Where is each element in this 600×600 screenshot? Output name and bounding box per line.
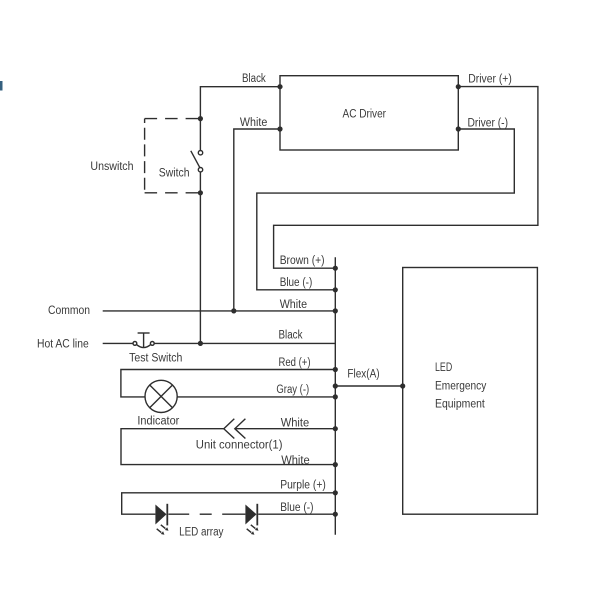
unswitch dashed box top edge [145,118,198,120]
bus vertical [334,257,336,535]
svg-text:LED: LED [435,362,452,374]
svg-text:Gray (-): Gray (-) [276,384,309,396]
LED Emergency Equipment box [403,268,538,515]
unswitch dashed box bottom edge [145,192,198,194]
wire purple plus [122,493,336,514]
svg-text:White: White [240,117,267,129]
junction dot blue bottom at bus [333,512,338,517]
junction dot purple at bus [333,490,338,495]
switch S1 lever [191,151,200,168]
junction dot black at AC driver [277,84,282,89]
svg-text:Emergency: Emergency [435,381,487,393]
junction dot brown at bus [333,266,338,271]
wire switch to hot line [199,172,201,343]
junction dot red at bus [333,367,338,372]
junction dot common at bus [333,308,338,313]
wire blue to bus [258,513,335,515]
svg-text:Red (+): Red (+) [279,357,311,369]
junction dot common white [231,308,236,313]
LED D1 [155,504,168,535]
wire hot ac line [103,342,133,344]
blue edge mark [0,81,3,91]
junction dot white at AC driver [277,126,282,131]
junction dot switch bottom [198,190,203,195]
svg-text:Driver (-): Driver (-) [468,118,509,130]
wire gray minus [177,396,335,398]
unit connector chevron 2 [235,419,246,439]
svg-text:Blue (-): Blue (-) [280,502,313,514]
wire red plus [121,370,335,397]
wire black top [200,87,280,151]
svg-text:Black: Black [242,73,266,85]
svg-text:Common: Common [48,305,90,317]
junction dot gray at bus [333,394,338,399]
unit connector chevron 1 [224,419,235,439]
svg-text:White: White [281,455,310,467]
wire white connector top [121,429,335,465]
svg-text:Blue (-): Blue (-) [280,277,313,289]
junction dot blue at bus [333,287,338,292]
svg-text:White: White [280,299,307,311]
wire driver minus [257,129,515,290]
svg-text:LED array: LED array [179,526,224,538]
junction dot flex at equipment [400,383,405,388]
svg-text:Test Switch: Test Switch [129,353,182,365]
svg-text:Unit connector(1): Unit connector(1) [196,439,283,451]
junction dot hot at switch [198,341,203,346]
svg-text:Purple (+): Purple (+) [280,480,326,492]
wire driver plus [274,87,538,269]
svg-text:White: White [281,417,310,429]
svg-text:Brown (+): Brown (+) [280,255,325,267]
svg-text:Indicator: Indicator [137,416,179,428]
unswitch dashed box left edge [144,119,146,193]
wire flex A [335,385,402,387]
LED D2 [245,504,258,535]
junction dot flex at bus [333,383,338,388]
svg-text:Black: Black [279,330,303,342]
svg-text:Flex(A): Flex(A) [347,369,379,381]
svg-text:Unswitch: Unswitch [90,161,133,173]
svg-text:Hot AC line: Hot AC line [37,338,89,350]
svg-text:Switch: Switch [159,167,190,179]
junction dot driver plus [456,84,461,89]
indicator lamp DS1 [145,380,177,412]
switch S1 contacts [198,151,202,155]
junction dot white top at bus [333,426,338,431]
junction dot white bottom at bus [333,462,338,467]
svg-text:AC Driver: AC Driver [343,108,387,120]
AC Driver box U1 [280,76,458,150]
svg-text:Driver (+): Driver (+) [468,74,512,86]
junction dot switch top [198,116,203,121]
test switch TS1 [133,333,154,348]
svg-text:Equipment: Equipment [435,399,486,411]
junction dot driver minus [456,126,461,131]
wire common [103,310,336,312]
wire led dashed link [168,513,189,515]
wire white top [234,129,280,311]
